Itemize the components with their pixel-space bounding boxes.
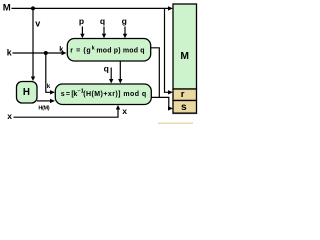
wire p arrow xyxy=(81,27,83,35)
box s = [k^-1(H(M)+xr)] mod q xyxy=(55,84,151,105)
svg-text:s: s xyxy=(181,102,187,113)
svg-text:q: q xyxy=(104,64,109,74)
junction dot k xyxy=(44,51,48,55)
svg-text:(H(M)+xr)] mod q: (H(M)+xr)] mod q xyxy=(83,91,146,98)
wire g arrow xyxy=(124,27,126,35)
wire r feedback into s box xyxy=(119,62,121,80)
box H xyxy=(17,82,38,104)
svg-text:s = [k: s = [k xyxy=(61,91,78,98)
wire r box output joining s output line xyxy=(150,48,159,98)
box r = (g^k mod p) mod q xyxy=(67,39,150,62)
svg-text:r = (g: r = (g xyxy=(70,48,91,55)
svg-text:k: k xyxy=(7,48,12,58)
svg-text:M: M xyxy=(3,3,11,14)
svg-text:H(M): H(M) xyxy=(38,105,49,111)
wire x to s box bottom xyxy=(14,109,119,117)
junction dot xyxy=(31,6,35,10)
wire H(M) to s box xyxy=(37,100,51,102)
svg-text:M: M xyxy=(180,51,189,62)
svg-text:p: p xyxy=(79,16,84,26)
svg-text:g: g xyxy=(122,16,127,26)
svg-text:k: k xyxy=(47,83,51,90)
wire k horizontal xyxy=(13,52,63,54)
wire M horizontal xyxy=(12,7,170,9)
svg-text:q: q xyxy=(100,16,105,26)
box M tall (message) xyxy=(173,4,197,89)
box s small xyxy=(173,101,197,114)
svg-text:mod p) mod q: mod p) mod q xyxy=(96,48,144,55)
box r small xyxy=(173,89,197,101)
wire M-line branch down to small r box xyxy=(165,8,169,92)
wire q arrow xyxy=(103,27,105,35)
wire M vertical to H xyxy=(32,8,34,77)
svg-text:r: r xyxy=(181,89,185,100)
wire q2 arrow into s box xyxy=(110,68,112,80)
artifact line bottom right xyxy=(158,123,193,124)
wire k vertical to s xyxy=(46,53,51,92)
wire s box output to small s box xyxy=(151,97,170,108)
svg-text:x: x xyxy=(7,111,12,121)
svg-text:v: v xyxy=(35,19,40,29)
svg-text:H: H xyxy=(23,87,30,98)
svg-text:x: x xyxy=(122,106,127,116)
